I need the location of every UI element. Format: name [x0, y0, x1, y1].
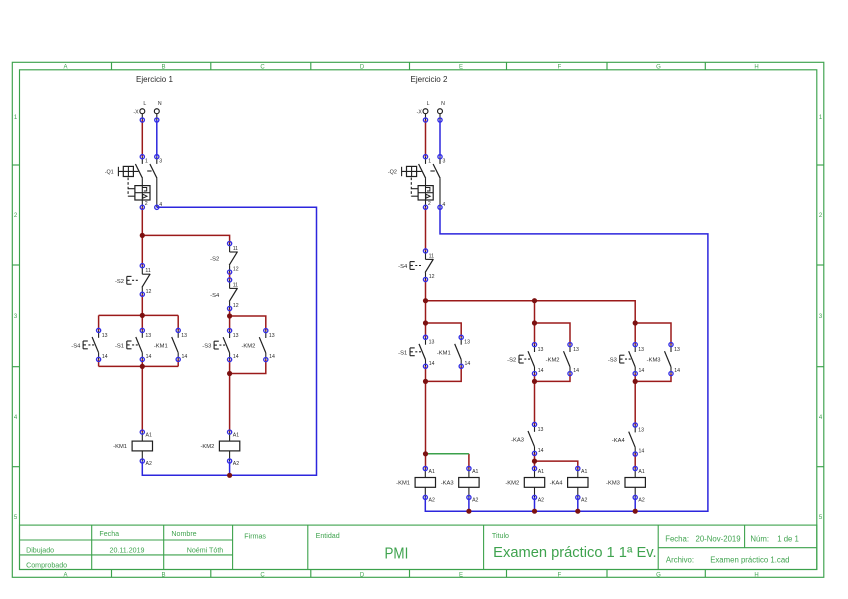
wire: [426, 301, 636, 323]
wire: [535, 323, 571, 345]
contact -KM1 aux (NO): [154, 328, 188, 361]
svg-text:14: 14: [573, 368, 579, 374]
svg-text:Noémi Tóth: Noémi Tóth: [187, 547, 224, 555]
svg-text:-X: -X: [133, 110, 139, 116]
svg-text:13: 13: [573, 347, 579, 353]
wire: [229, 360, 231, 374]
svg-text:3: 3: [443, 159, 446, 165]
contact -S2 (NC): [115, 264, 152, 297]
svg-text:13: 13: [429, 340, 435, 346]
junction: [532, 379, 537, 384]
svg-text:Núm:: Núm:: [750, 535, 769, 544]
svg-text:Examen práctico 1 1ª Ev.: Examen práctico 1 1ª Ev.: [493, 545, 656, 561]
wire: [141, 366, 143, 432]
svg-text:11: 11: [233, 282, 238, 288]
wire: [229, 374, 231, 433]
svg-text:-KA4: -KA4: [550, 481, 564, 487]
wire: [99, 365, 179, 367]
wire: [98, 359, 100, 366]
wire: [141, 359, 143, 366]
contact -S4 aux (NC): [210, 278, 239, 311]
svg-text:-S2: -S2: [210, 257, 219, 263]
svg-text:A2: A2: [429, 498, 435, 504]
junction: [423, 451, 428, 456]
wire: [229, 309, 231, 317]
svg-text:-S2: -S2: [507, 358, 516, 364]
svg-text:B: B: [161, 65, 165, 71]
svg-text:-S4: -S4: [398, 264, 408, 270]
svg-text:14: 14: [146, 354, 152, 360]
wire: [230, 316, 266, 331]
svg-text:14: 14: [538, 448, 544, 454]
junction: [423, 320, 428, 325]
svg-text:1: 1: [145, 159, 148, 165]
svg-text:20-Nov-2019: 20-Nov-2019: [696, 535, 741, 544]
contact -S2 (Ej2) (NO): [507, 343, 544, 376]
svg-text:-KM3: -KM3: [647, 358, 661, 364]
svg-text:C: C: [260, 65, 265, 71]
svg-text:2: 2: [14, 213, 18, 219]
svg-text:PMI: PMI: [385, 546, 409, 563]
svg-text:A: A: [63, 573, 67, 579]
svg-text:20.11.2019: 20.11.2019: [110, 547, 145, 555]
wire: [426, 366, 462, 381]
svg-text:G: G: [656, 65, 661, 71]
svg-text:-S1: -S1: [115, 344, 124, 350]
wire: [98, 315, 100, 330]
contact -S4 (Ej2) (NC): [398, 249, 435, 282]
svg-text:G: G: [656, 573, 661, 579]
svg-text:13: 13: [538, 347, 544, 353]
coil -KM3: [606, 466, 645, 503]
svg-text:14: 14: [674, 368, 680, 374]
svg-text:Entidad: Entidad: [316, 532, 340, 540]
wire: [229, 461, 231, 475]
svg-text:2: 2: [819, 213, 823, 219]
wire: [634, 497, 636, 511]
wire: [635, 323, 671, 345]
svg-text:13: 13: [538, 427, 544, 433]
svg-text:12: 12: [233, 303, 239, 309]
svg-text:1: 1: [819, 115, 823, 121]
svg-text:H: H: [754, 573, 758, 579]
svg-text:Nombre: Nombre: [171, 530, 196, 538]
svg-text:Archivo:: Archivo:: [666, 556, 694, 565]
svg-text:13: 13: [464, 340, 470, 346]
contact -KM3 aux (Ej2) (NO): [647, 343, 681, 376]
wire: [229, 272, 231, 280]
svg-text:-KA4: -KA4: [612, 438, 626, 444]
svg-text:D: D: [360, 65, 365, 71]
svg-text:14: 14: [233, 354, 239, 360]
svg-text:Ejercicio 2: Ejercicio 2: [411, 75, 448, 84]
svg-text:A2: A2: [472, 498, 478, 504]
wire: [439, 120, 441, 157]
wire: [230, 360, 266, 374]
terminal -X N (Ej1): [154, 101, 162, 122]
svg-text:Titulo: Titulo: [492, 532, 509, 540]
svg-text:14: 14: [269, 354, 275, 360]
wire: [534, 323, 536, 345]
wire: [177, 359, 179, 366]
svg-text:A1: A1: [538, 469, 544, 475]
junction: [633, 379, 638, 384]
svg-text:5: 5: [14, 515, 18, 521]
coil -KM1: [113, 430, 152, 467]
svg-text:13: 13: [181, 333, 187, 339]
wire: [141, 294, 143, 330]
wire: [99, 314, 179, 316]
coil -KM2 (Ej2): [505, 466, 544, 503]
title block: [20, 525, 817, 569]
junction: [532, 459, 537, 464]
contact -S4 (NO): [71, 328, 108, 361]
terminal -X N (Ej2): [438, 101, 446, 122]
junction: [532, 509, 537, 514]
wire: [634, 381, 636, 425]
svg-text:13: 13: [145, 333, 151, 339]
svg-text:-KM3: -KM3: [606, 481, 620, 487]
coil -KA3: [441, 466, 479, 503]
contact -KM2 aux (NO): [241, 329, 275, 362]
svg-text:Dibujado: Dibujado: [26, 547, 54, 555]
svg-text:12: 12: [429, 274, 435, 280]
svg-text:11: 11: [145, 268, 150, 274]
wire: [142, 207, 316, 475]
wire: [177, 315, 179, 330]
junction: [227, 473, 232, 478]
wire: [425, 381, 427, 468]
svg-text:A2: A2: [538, 498, 544, 504]
svg-text:Fecha:: Fecha:: [665, 535, 689, 544]
svg-text:A1: A1: [429, 469, 435, 475]
terminal -X L (Ej2): [423, 101, 430, 122]
wire: [534, 497, 536, 511]
svg-text:-KM1: -KM1: [437, 350, 451, 356]
wire: [534, 301, 536, 323]
svg-text:N: N: [158, 101, 162, 107]
contact -KA4 aux (NO): [612, 423, 645, 456]
wire: [635, 374, 671, 382]
circuit breaker -Q1: [105, 155, 163, 210]
svg-text:Comprobado: Comprobado: [26, 561, 67, 569]
svg-text:11: 11: [233, 246, 238, 252]
wire: [142, 235, 229, 243]
svg-text:A1: A1: [581, 469, 587, 475]
wire: [426, 323, 462, 337]
svg-text:-KM1: -KM1: [113, 444, 127, 450]
svg-text:14: 14: [639, 368, 645, 374]
junction: [466, 509, 471, 514]
svg-text:2: 2: [428, 201, 431, 207]
svg-text:-KA3: -KA3: [511, 438, 524, 444]
svg-text:-S4: -S4: [71, 344, 81, 350]
svg-text:-KM2: -KM2: [241, 344, 255, 350]
coil -KM1 (Ej2): [396, 466, 435, 503]
contact -S1 (NO): [115, 328, 152, 361]
svg-text:4: 4: [159, 202, 162, 208]
svg-text:A: A: [63, 65, 67, 71]
svg-text:14: 14: [182, 354, 188, 360]
junction: [532, 320, 537, 325]
svg-text:A1: A1: [638, 469, 644, 475]
svg-text:3: 3: [14, 314, 18, 320]
wire: [425, 366, 427, 381]
svg-text:L: L: [143, 101, 146, 107]
contact -S2 aux (NC): [210, 241, 239, 274]
wire: [468, 497, 470, 511]
svg-text:-KM1: -KM1: [396, 481, 410, 487]
junction: [140, 313, 145, 318]
contact -KM2 aux (Ej2) (NO): [546, 343, 580, 376]
svg-text:4: 4: [14, 415, 18, 421]
svg-text:-S1: -S1: [398, 350, 407, 356]
svg-text:A2: A2: [638, 498, 644, 504]
svg-text:14: 14: [538, 368, 544, 374]
wire: [534, 381, 536, 424]
svg-text:Firmas: Firmas: [244, 533, 266, 541]
svg-text:14: 14: [102, 354, 108, 360]
junction: [140, 233, 145, 238]
wire: [425, 301, 427, 323]
svg-text:13: 13: [269, 333, 275, 339]
wire: [577, 497, 579, 511]
svg-text:B: B: [161, 573, 165, 579]
junction: [140, 364, 145, 369]
svg-text:E: E: [459, 65, 463, 71]
wire: [425, 323, 427, 337]
svg-text:L: L: [427, 101, 430, 107]
wire: [634, 374, 636, 382]
svg-text:1: 1: [428, 159, 431, 165]
svg-text:D: D: [360, 573, 365, 579]
wire: [426, 453, 469, 455]
svg-text:-X: -X: [417, 110, 423, 116]
svg-text:-Q2: -Q2: [388, 170, 397, 176]
wire: [425, 280, 427, 301]
contact -KM1 aux (Ej2) (NO): [437, 335, 471, 368]
svg-text:11: 11: [429, 253, 434, 259]
svg-text:5: 5: [819, 515, 823, 521]
contact -KA3 aux (NO): [511, 422, 544, 455]
wire: [229, 316, 231, 331]
svg-text:-KM1: -KM1: [154, 344, 168, 350]
svg-text:-S3: -S3: [608, 358, 617, 364]
svg-text:Ejercicio 1: Ejercicio 1: [136, 75, 173, 84]
wire: [468, 454, 470, 469]
terminal -X L (Ej1): [140, 101, 147, 122]
wire: [534, 374, 536, 382]
contact -S3 (Ej2) (NO): [608, 343, 645, 376]
wire: [425, 120, 427, 157]
junction: [227, 313, 232, 318]
svg-text:A2: A2: [233, 461, 239, 467]
svg-text:-Q1: -Q1: [105, 170, 114, 176]
svg-text:-S4: -S4: [210, 293, 220, 299]
svg-text:1 de 1: 1 de 1: [777, 535, 799, 544]
wire: [156, 120, 158, 157]
junction: [633, 509, 638, 514]
junction: [532, 298, 537, 303]
svg-text:14: 14: [429, 361, 435, 367]
wire: [535, 374, 571, 382]
svg-text:A2: A2: [146, 461, 152, 467]
svg-text:13: 13: [674, 347, 680, 353]
wire: [141, 207, 143, 265]
svg-text:F: F: [558, 65, 562, 71]
junction: [227, 371, 232, 376]
svg-text:13: 13: [638, 347, 644, 353]
wire: [534, 453, 536, 468]
svg-text:Fecha: Fecha: [99, 530, 119, 538]
circuit breaker -Q2: [388, 155, 446, 210]
svg-text:12: 12: [233, 267, 239, 273]
svg-text:E: E: [459, 573, 463, 579]
wire: [425, 207, 427, 251]
wire: [634, 323, 636, 345]
svg-text:-S2: -S2: [115, 279, 124, 285]
contact -S1 (Ej2) (NO): [398, 335, 435, 368]
wire: [425, 207, 708, 511]
svg-text:14: 14: [639, 449, 645, 455]
coil -KM2: [200, 430, 239, 467]
junction: [423, 298, 428, 303]
svg-text:-KA3: -KA3: [441, 481, 454, 487]
svg-text:A1: A1: [233, 433, 239, 439]
svg-text:12: 12: [146, 289, 152, 295]
svg-text:Examen práctico 1.cad: Examen práctico 1.cad: [710, 556, 789, 565]
svg-text:1: 1: [14, 115, 18, 121]
svg-text:A1: A1: [472, 469, 478, 475]
wire: [634, 453, 636, 468]
junction: [423, 379, 428, 384]
svg-text:2: 2: [145, 201, 148, 207]
svg-text:N: N: [441, 101, 445, 107]
svg-text:13: 13: [102, 333, 108, 339]
svg-text:H: H: [754, 65, 758, 71]
svg-text:A2: A2: [581, 498, 587, 504]
svg-text:4: 4: [442, 202, 445, 208]
svg-text:4: 4: [819, 415, 823, 421]
wire: [535, 461, 578, 468]
junction: [575, 509, 580, 514]
svg-text:14: 14: [465, 361, 471, 367]
svg-text:F: F: [558, 573, 562, 579]
svg-text:-KM2: -KM2: [200, 444, 214, 450]
svg-text:C: C: [260, 573, 265, 579]
svg-text:3: 3: [159, 159, 162, 165]
svg-text:3: 3: [819, 314, 823, 320]
coil -KA4: [550, 466, 588, 503]
svg-text:-KM2: -KM2: [546, 358, 560, 364]
svg-text:-S3: -S3: [202, 344, 211, 350]
svg-text:-KM2: -KM2: [505, 481, 519, 487]
contact -S3 (NO): [202, 329, 239, 362]
wire: [141, 120, 143, 157]
svg-text:13: 13: [638, 427, 644, 433]
svg-text:13: 13: [233, 333, 239, 339]
junction: [633, 320, 638, 325]
svg-text:A1: A1: [146, 433, 152, 439]
